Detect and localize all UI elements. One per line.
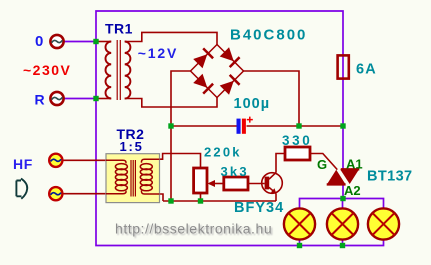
- junction: triac A2 / lamp rail: [340, 196, 345, 201]
- triac T1 BT137: [327, 170, 346, 185]
- lamp L3: [368, 208, 399, 239]
- wire: R terminal to frame: [65, 98, 97, 100]
- transformer TR1: [105, 42, 130, 99]
- transistor Q1 BFY34: [262, 173, 283, 194]
- TR2 primary coil: [106, 160, 127, 193]
- wire: DC- vertical down to common rail: [170, 126, 172, 201]
- svg-text:B40C800: B40C800: [230, 27, 307, 44]
- HF input arrow symbol: [16, 179, 27, 199]
- svg-text:BFY34: BFY34: [234, 200, 284, 216]
- terminal HF bottom: [49, 187, 62, 200]
- svg-text:~230V: ~230V: [23, 62, 71, 78]
- junction: R terminal / primary bottom: [93, 96, 98, 101]
- wire: TR1 primary bottom lead: [96, 98, 111, 100]
- wire: lamp2 bottom stub: [342, 240, 344, 246]
- terminal HF top: [49, 154, 62, 167]
- wire: fuse interior + fuse bottom to DC+ junction: [342, 54, 344, 126]
- lamp L2: [327, 208, 358, 239]
- wire: bridge DC- corner to rail: [171, 71, 191, 126]
- svg-text:1:5: 1:5: [120, 139, 144, 154]
- terminal O: [50, 35, 63, 48]
- wire: lamp1 bottom stub: [299, 240, 301, 246]
- wire: TR2 secondary bottom lead to common rail: [160, 194, 164, 201]
- terminal R: [50, 92, 63, 105]
- wire: TR1 secondary bottom to bridge AC bottom: [125, 98, 217, 108]
- junction: bridge DC+ / rail: [296, 123, 301, 128]
- svg-text:A1: A1: [346, 157, 363, 172]
- svg-text:http://bsselektronika.hu: http://bsselektronika.hu: [115, 221, 272, 237]
- svg-text:TR1: TR1: [105, 21, 133, 37]
- svg-text:100µ: 100µ: [234, 96, 271, 112]
- wiper arrowhead: [208, 180, 216, 187]
- svg-text:A2: A2: [344, 183, 361, 198]
- wire: TR1 secondary top to bridge AC top: [125, 32, 217, 44]
- wire: potentiometer bottom to common rail: [200, 193, 202, 201]
- resistor R2 3k3: [224, 177, 248, 190]
- wire: TR1 primary top lead: [96, 41, 111, 43]
- svg-text:R: R: [35, 92, 45, 108]
- wire: pot wiper arrow to R2: [209, 183, 224, 185]
- potentiometer P1 220k: [194, 168, 207, 193]
- wire: lamp2 top stub: [342, 199, 344, 209]
- junction: DC- rail tee: [168, 123, 173, 128]
- wire: left frame vertical (O junction down to bottom rail): [96, 42, 384, 246]
- svg-text:220k: 220k: [204, 145, 242, 160]
- wire: mains top frame (O terminal net to fuse): [96, 11, 343, 54]
- svg-text:0: 0: [35, 33, 43, 50]
- TR2 core: [131, 160, 135, 197]
- junction: lamp2 bottom: [340, 243, 345, 248]
- wire: common bottom rail: [163, 200, 276, 202]
- junction: DC- vertical / common rail: [168, 198, 173, 203]
- wire: lamp top rail: [300, 199, 384, 209]
- junction: lamp1 bottom: [297, 243, 302, 248]
- junction: fuse / DC+ rail: [340, 123, 345, 128]
- wire: bridge DC+ corner to rail: [244, 71, 300, 126]
- svg-text:G: G: [317, 157, 327, 172]
- wire: R3 right lead and gate diagonal to triac: [310, 154, 337, 170]
- diode D2 (upper-right, points to DC+): [219, 47, 239, 67]
- TR1 core: [116, 40, 118, 100]
- diode D1 (upper-left, points to AC top): [193, 48, 213, 68]
- fuse F1: [338, 55, 349, 78]
- C1 plus sign: [247, 117, 253, 123]
- wire: TR2 secondary top lead to potentiometer top: [160, 154, 201, 169]
- wire: HF input bottom to TR2: [63, 193, 106, 195]
- wire: O terminal to frame: [65, 41, 97, 43]
- capacitor C1 100u electrolytic: [237, 119, 241, 134]
- wire: DC+ junction down to triac A1: [342, 126, 344, 170]
- svg-text:3k3: 3k3: [221, 164, 249, 179]
- svg-text:~12V: ~12V: [138, 45, 178, 61]
- wire: triac A2 down to lamp rail: [342, 185, 344, 199]
- wire: collector up to R3 left lead: [276, 154, 285, 173]
- wire: DC- rail to capacitor: [171, 125, 237, 127]
- bridge rectifier B40C800 diamond: [191, 45, 244, 98]
- junction: O terminal / primary top: [93, 39, 98, 44]
- svg-text:6A: 6A: [356, 62, 377, 78]
- junction: pot bottom / common rail: [198, 198, 203, 203]
- wire: R2 to transistor base: [248, 183, 265, 185]
- diode D3 (lower-left, points to AC bottom): [193, 73, 213, 93]
- lamp L1: [284, 208, 315, 239]
- svg-text:HF: HF: [13, 156, 33, 172]
- TR2 secondary coil: [140, 159, 159, 194]
- wire: capacitor to DC+ rail: [247, 125, 344, 127]
- diode D4 (lower-right, points to DC+): [219, 75, 239, 95]
- svg-text:330: 330: [282, 133, 312, 148]
- svg-text:BT137: BT137: [367, 169, 413, 185]
- Q1 emitter arrowhead: [271, 188, 276, 193]
- transformer TR2 box: [106, 154, 160, 203]
- wire: HF input top to TR2: [63, 159, 106, 161]
- resistor R3 330: [285, 147, 310, 160]
